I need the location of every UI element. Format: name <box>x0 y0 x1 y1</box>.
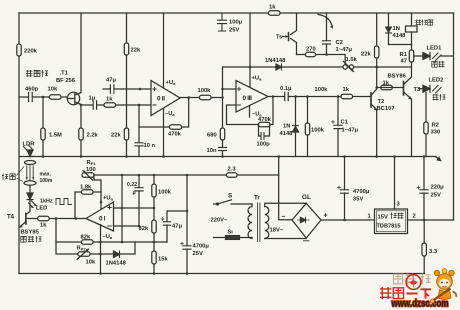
capacitor 47u <box>110 85 114 93</box>
label regulator (Chinese) <box>391 213 404 219</box>
resistor 1k collector T2 <box>381 85 393 89</box>
potentiometer Rp1 100 <box>82 170 94 180</box>
svg-text:0 I: 0 I <box>99 216 106 223</box>
wire regulator pin3 column <box>394 157 396 210</box>
light beam <box>26 166 35 180</box>
svg-text:100k: 100k <box>315 87 329 93</box>
capacitor 4700u 35V column <box>344 157 346 221</box>
wire T2 collector to T3 base <box>377 87 404 89</box>
resistor 680 <box>220 128 224 140</box>
wire bridge plus output <box>321 219 375 221</box>
svg-text:2: 2 <box>413 214 416 220</box>
svg-text:470k: 470k <box>168 132 182 138</box>
svg-text:82k: 82k <box>81 235 91 241</box>
resistor 1k base T2 <box>341 94 353 98</box>
resistor 470k feedback II <box>170 125 182 129</box>
wire -Ua pin opamp I to bottom rail <box>100 225 102 274</box>
transistor T5 <box>283 13 297 55</box>
LED1 alarm <box>414 53 454 61</box>
svg-text:0 II: 0 II <box>157 96 165 103</box>
svg-text:.T1: .T1 <box>60 71 69 77</box>
capacitor 1u <box>93 101 96 109</box>
resistor 270 <box>306 52 316 56</box>
label lens (Chinese) <box>2 167 24 182</box>
wire T1 source to opamp II inverting input <box>81 104 151 106</box>
transformer Tr secondary <box>265 207 269 239</box>
svg-text:100μ: 100μ <box>229 20 243 26</box>
svg-text:1k: 1k <box>383 81 390 87</box>
capacitor 4700u 25V column <box>186 175 188 274</box>
wire 680/10n column <box>222 67 224 157</box>
LED transmitter <box>27 185 37 208</box>
svg-text:1k: 1k <box>40 223 47 229</box>
resistor 1k in top rail <box>269 11 281 15</box>
resistor 22k right column <box>376 13 378 157</box>
wire opamp III +Ua column <box>249 13 251 87</box>
svg-text:1kHz: 1kHz <box>40 199 53 205</box>
svg-text:1k: 1k <box>269 5 276 11</box>
transistor T2 BC107 <box>371 88 377 112</box>
svg-text:TDB7815: TDB7815 <box>377 224 401 230</box>
svg-text:35V: 35V <box>353 197 363 203</box>
svg-text:BSY86: BSY86 <box>388 74 407 80</box>
capacitor 0.1u <box>285 92 289 100</box>
svg-text:1k: 1k <box>343 87 350 93</box>
svg-text:S: S <box>228 193 232 200</box>
wire +15V distribution rail B <box>94 174 279 176</box>
wire column x122 <box>121 175 123 242</box>
svg-text:2.2k: 2.2k <box>87 133 99 139</box>
potentiometer Rp2 10k <box>77 249 90 260</box>
resistor 22k upper column <box>126 13 128 157</box>
capacitor 460p <box>29 93 33 102</box>
svg-text:BSY85: BSY85 <box>21 230 40 236</box>
resistor 82k vertical <box>152 220 156 233</box>
node bridge AC bottom tick <box>304 240 310 242</box>
svg-text:1~47μ: 1~47μ <box>336 47 353 53</box>
resistor 1k base T4 <box>38 216 50 220</box>
svg-text:1μ: 1μ <box>89 96 96 102</box>
svg-text:18V~: 18V~ <box>270 228 284 234</box>
svg-text:470k: 470k <box>258 117 272 123</box>
capacitor 220u 25V column <box>423 157 425 221</box>
transistor T1 BF256 <box>67 92 81 104</box>
capacitor 10n right <box>219 148 227 151</box>
svg-text:680: 680 <box>207 133 217 139</box>
svg-text:25V: 25V <box>229 28 239 34</box>
wire opamp III inverting input / feedback <box>227 97 274 125</box>
capacitor 10n left column <box>138 127 140 157</box>
label alarm (Chinese) <box>432 61 445 67</box>
svg-text:25V: 25V <box>431 193 441 199</box>
regulator TDB7815 box <box>375 209 408 234</box>
capacitor C1 column <box>337 97 339 157</box>
svg-text:47μ: 47μ <box>172 224 182 230</box>
svg-text:BF 256: BF 256 <box>56 78 76 84</box>
svg-text:1~47μ: 1~47μ <box>342 128 359 134</box>
svg-text:0.1μ: 0.1μ <box>280 86 292 92</box>
wire opamp III -Ua stub <box>249 106 251 117</box>
svg-text:BC107: BC107 <box>377 106 395 112</box>
svg-text:C1: C1 <box>341 120 349 126</box>
wire Rp2/diode bus <box>56 219 135 255</box>
diode 1N4148 relay clamp column <box>388 13 390 45</box>
transformer Tr primary <box>248 204 252 239</box>
diode 1N4148 bottom <box>114 251 120 258</box>
svg-text:82k: 82k <box>139 226 149 232</box>
svg-text:1k: 1k <box>106 97 113 103</box>
svg-text:15V: 15V <box>378 215 388 221</box>
diode 1N4148 vertical column <box>295 97 297 157</box>
svg-text:T2: T2 <box>378 99 385 105</box>
diode inside bridge <box>298 217 310 222</box>
node square wave <box>56 199 72 205</box>
capacitor 47u column <box>167 211 187 242</box>
wire bottom rail <box>19 273 425 275</box>
svg-text:R1: R1 <box>400 52 408 58</box>
svg-text:T3: T3 <box>414 87 422 93</box>
resistor 1.5M column <box>42 97 44 157</box>
svg-text:100k: 100k <box>158 190 172 196</box>
svg-text:+Ua: +Ua <box>103 196 114 202</box>
svg-text:0 III: 0 III <box>243 95 253 102</box>
svg-text:+Ua: +Ua <box>252 76 263 82</box>
svg-text:RP1: RP1 <box>87 160 97 166</box>
wire threshold line with 1N4148 <box>223 66 412 68</box>
wire top +15V rail <box>19 12 454 14</box>
wire regulator pin2 output <box>408 219 454 221</box>
resistor R2 330 column <box>425 93 427 157</box>
svg-text:1N4148: 1N4148 <box>106 261 127 267</box>
svg-text:+: + <box>324 213 328 220</box>
svg-text:1.5M: 1.5M <box>49 133 62 139</box>
LDR photoresistor <box>24 145 34 157</box>
potentiometer 1.5k <box>343 62 354 72</box>
op-amp U2 (0 II) <box>151 81 180 116</box>
op-amp U1 (0 I) <box>86 202 114 231</box>
svg-text:47μ: 47μ <box>106 78 116 84</box>
svg-text:220μ: 220μ <box>431 185 445 191</box>
svg-text:1N: 1N <box>283 124 290 130</box>
label working (Chinese) <box>433 94 446 100</box>
node rail-A end arrow <box>436 157 441 161</box>
wire 1.8k feedback <box>75 192 101 219</box>
svg-text:Tr: Tr <box>254 195 260 202</box>
label receiver (Chinese) <box>26 70 48 77</box>
wire feedback bus 82k <box>56 241 167 243</box>
resistor 10k <box>50 95 62 99</box>
transistor T3 <box>404 77 412 157</box>
wire opamp I non-inverting input <box>114 207 155 209</box>
svg-text:LED: LED <box>36 206 47 212</box>
wire to opamp III non-inverting input <box>223 88 237 90</box>
svg-text:10k: 10k <box>86 260 96 266</box>
svg-text:22k: 22k <box>361 52 371 58</box>
svg-text:+Ua: +Ua <box>166 80 177 86</box>
relay coil column <box>411 13 413 45</box>
resistor 2.3 <box>227 173 238 177</box>
wire T4 base to opamp I output <box>49 218 86 220</box>
svg-text:–: – <box>282 214 286 221</box>
svg-text:–Ua: –Ua <box>103 234 113 240</box>
wire T1 gate <box>19 96 67 98</box>
transformer core <box>258 203 260 242</box>
resistor 220k <box>17 44 21 56</box>
lens upper <box>25 161 36 165</box>
svg-text:10 n: 10 n <box>144 143 156 149</box>
wire opamp II output <box>180 97 223 99</box>
svg-text:100k: 100k <box>311 128 325 134</box>
svg-text:100m: 100m <box>40 178 53 184</box>
resistor 2.2k column (T1 drain/source line) <box>80 13 82 157</box>
resistor 15k vertical <box>152 251 156 264</box>
wire diode-relay join <box>389 44 412 46</box>
resistor 100k column bottom section <box>153 175 155 274</box>
svg-text:RP2: RP2 <box>77 246 87 252</box>
wire opamp II +Ua supply column <box>163 13 165 88</box>
svg-text:T4: T4 <box>7 215 15 221</box>
rectifier bridge GL <box>292 203 321 238</box>
svg-text:Sı: Sı <box>228 230 234 236</box>
svg-text:3.3: 3.3 <box>429 249 438 255</box>
svg-text:100k: 100k <box>198 88 212 94</box>
label transmitter (Chinese) <box>21 236 42 242</box>
capacitor 100u decoupling <box>218 13 227 31</box>
svg-text:–Ua: –Ua <box>165 111 175 117</box>
wire +Ua pin opamp I <box>100 192 102 209</box>
svg-text:LDR: LDR <box>23 142 36 148</box>
svg-text:1N: 1N <box>393 26 400 32</box>
op-amp U3 (0 III) <box>236 81 268 113</box>
diode 1N4148 horizontal <box>276 64 282 70</box>
wire right rail <box>453 13 455 220</box>
svg-text:4700μ: 4700μ <box>193 244 210 250</box>
svg-text:0.22: 0.22 <box>127 182 137 188</box>
svg-text:1.5k: 1.5k <box>346 57 358 63</box>
svg-text:4148: 4148 <box>393 33 407 39</box>
transistor T4 <box>19 200 37 228</box>
svg-text:LED1: LED1 <box>427 46 443 52</box>
wire 270 line <box>297 55 346 65</box>
capacitor 0.22u column <box>138 175 140 226</box>
svg-text:47: 47 <box>401 59 407 65</box>
resistor 100k vertical column <box>307 97 309 157</box>
svg-text:100p: 100p <box>257 142 271 148</box>
svg-text:270: 270 <box>306 47 316 53</box>
watermark red seal <box>406 275 421 290</box>
svg-text:22k: 22k <box>111 133 121 139</box>
svg-text:4700μ: 4700μ <box>353 189 370 195</box>
svg-text:GL: GL <box>302 194 311 201</box>
svg-text:220k: 220k <box>24 49 38 55</box>
svg-text:10k: 10k <box>48 87 58 93</box>
wire bridge minus column <box>279 157 292 220</box>
watermark find-chips text <box>394 274 431 285</box>
svg-text:10n: 10n <box>207 148 217 154</box>
resistor 100k interstage <box>200 95 212 99</box>
wire secondary to bridge <box>265 203 307 238</box>
wire opamp I inverting input <box>114 225 140 227</box>
svg-text:4148: 4148 <box>280 131 294 137</box>
svg-text:15k: 15k <box>158 257 168 263</box>
wire ground rail A <box>19 156 436 158</box>
switch S <box>214 200 253 205</box>
resistor 82k horizontal <box>82 240 94 244</box>
svg-text:Ts: Ts <box>276 35 282 41</box>
label relay (Chinese) <box>416 20 433 26</box>
svg-text:μ: μ <box>133 190 136 196</box>
svg-text:330: 330 <box>431 130 441 136</box>
fuse Si <box>214 236 253 240</box>
svg-text:25V: 25V <box>193 251 203 257</box>
capacitor C2 column <box>326 13 328 55</box>
wire opamp II feedback loop <box>139 98 189 128</box>
resistor R1 47 column <box>411 45 413 77</box>
resistor 470k feedback III <box>259 122 271 126</box>
capacitor 100p parallel <box>259 125 270 137</box>
svg-text:www.dzsc.com: www.dzsc.com <box>391 299 449 310</box>
lens lower <box>24 181 36 185</box>
wire left rail <box>18 13 20 274</box>
watermark weiku red text <box>380 287 431 299</box>
wire opamp II -Ua column to ground <box>163 109 165 157</box>
svg-text:C2: C2 <box>336 40 343 46</box>
svg-text:220V~: 220V~ <box>211 218 229 224</box>
resistor 1k input <box>104 103 116 107</box>
watermark mascot <box>431 269 457 303</box>
svg-text:460p: 460p <box>25 87 39 93</box>
svg-text:1N4148: 1N4148 <box>265 58 286 64</box>
svg-text:R2: R2 <box>432 123 439 129</box>
node adjust arc arrow <box>318 15 333 30</box>
svg-text:1.8k: 1.8k <box>80 185 92 191</box>
svg-text:100: 100 <box>86 167 96 173</box>
LED2 working <box>419 85 442 93</box>
wire opamp III output <box>268 96 371 98</box>
svg-text:22k: 22k <box>131 48 141 54</box>
svg-text:max.: max. <box>40 172 52 178</box>
wire 47u branch to opamp II non-inverting input <box>103 88 151 90</box>
svg-text:LED2: LED2 <box>429 78 444 84</box>
resistor 22k lower <box>124 128 128 140</box>
resistor 3.3 column <box>423 220 425 274</box>
svg-text:2.3: 2.3 <box>228 167 237 173</box>
resistor 1.8k <box>82 190 94 194</box>
wire Rp1 jog to 1.8k line <box>94 175 101 192</box>
